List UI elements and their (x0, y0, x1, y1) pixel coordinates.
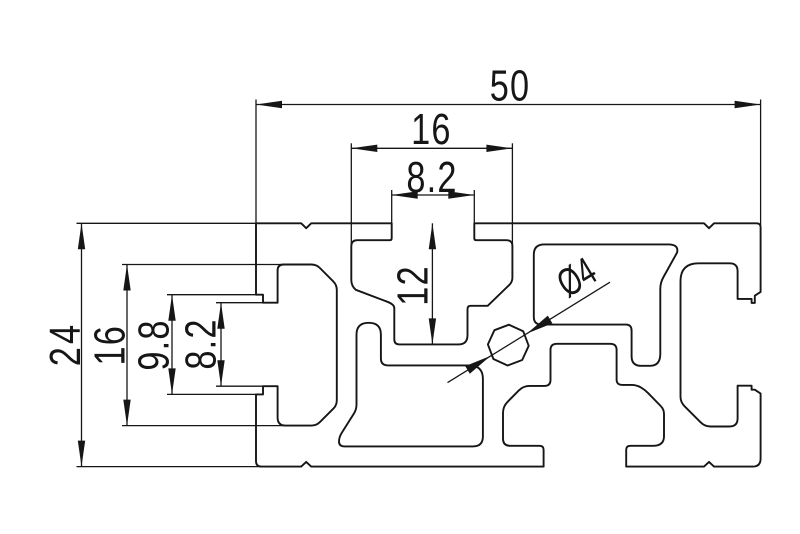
arrowhead 12 top (429, 223, 436, 249)
arrowhead 16 top left (351, 145, 377, 152)
arrowhead 8.2 top left (392, 191, 418, 198)
profile outline (aluminium extrusion 50x24 cross-section, with top T-slot, bottom T-slot, left slot, right C-slot, edge notches) (256, 223, 761, 466)
svg-text:24: 24 (41, 322, 90, 366)
dimension 24: bottom extension line (77, 466, 262, 468)
svg-text:50: 50 (490, 61, 530, 110)
center hole Ø4 (octagon) (488, 325, 529, 366)
svg-text:9.8: 9.8 (129, 319, 178, 370)
arrowhead 8.2 left bottom (217, 360, 224, 386)
dimension 8.2 top: dim line (392, 194, 475, 196)
dimension 8.2 top: left extension line (391, 190, 393, 223)
dimension 16 left: top extension line (122, 264, 311, 266)
dimension 8.2 left: bottom extension line (216, 385, 278, 387)
arrowhead 9.8 bottom (168, 368, 175, 394)
dimension 9.8: dim line (171, 295, 173, 395)
dimension 50: left extension line (255, 100, 257, 224)
dimension 12: dim line (431, 223, 433, 344)
arrowhead 8.2 top right (448, 191, 474, 198)
dimension 24: dim line (81, 223, 83, 466)
arrowhead 16 left top (123, 265, 130, 291)
svg-text:16: 16 (411, 105, 451, 154)
dimension 16 top: left extension line (350, 143, 352, 251)
svg-text:12: 12 (388, 265, 437, 305)
dimension 50: dim line (256, 104, 761, 106)
svg-text:8.2: 8.2 (176, 318, 225, 369)
dimension 24: top extension line (77, 222, 257, 224)
dimension 16 top: right extension line (511, 143, 513, 251)
dimension 8.2 top: right extension line (473, 190, 475, 223)
svg-text:16: 16 (85, 325, 134, 365)
arrowhead 8.2 left top (217, 303, 224, 329)
arrowhead 24 top (78, 223, 85, 249)
dimension 8.2 left: dim line (220, 303, 222, 387)
dimension 16 top: dim line (351, 147, 512, 149)
dimension 50: right extension line (760, 100, 762, 227)
svg-text:8.2: 8.2 (406, 153, 457, 202)
dimension 9.8: bottom extension line (167, 393, 256, 395)
central chamber cavity with upward channel (339, 323, 483, 447)
dimension Ø4: leader line (448, 282, 611, 382)
arrowhead Ø4 lower (465, 356, 490, 374)
dimension 16 left: dim line (126, 265, 128, 426)
arrowhead 16 left bottom (123, 400, 130, 426)
arrowhead 16 top right (486, 145, 512, 152)
arrowhead 50 right (735, 101, 761, 108)
dimension 16 left: bottom extension line (122, 425, 311, 427)
arrowhead 50 left (256, 101, 282, 108)
dimension 8.2 left: top extension line (216, 302, 278, 304)
arrowhead 9.8 top (168, 295, 175, 321)
arrowhead 24 bottom (78, 441, 85, 467)
top-right cavity (flag-shaped with descending channel) (534, 244, 678, 365)
arrowhead 12 bottom (429, 318, 436, 344)
dimension 9.8: top extension line (167, 294, 256, 296)
arrowhead Ø4 upper (527, 316, 552, 334)
